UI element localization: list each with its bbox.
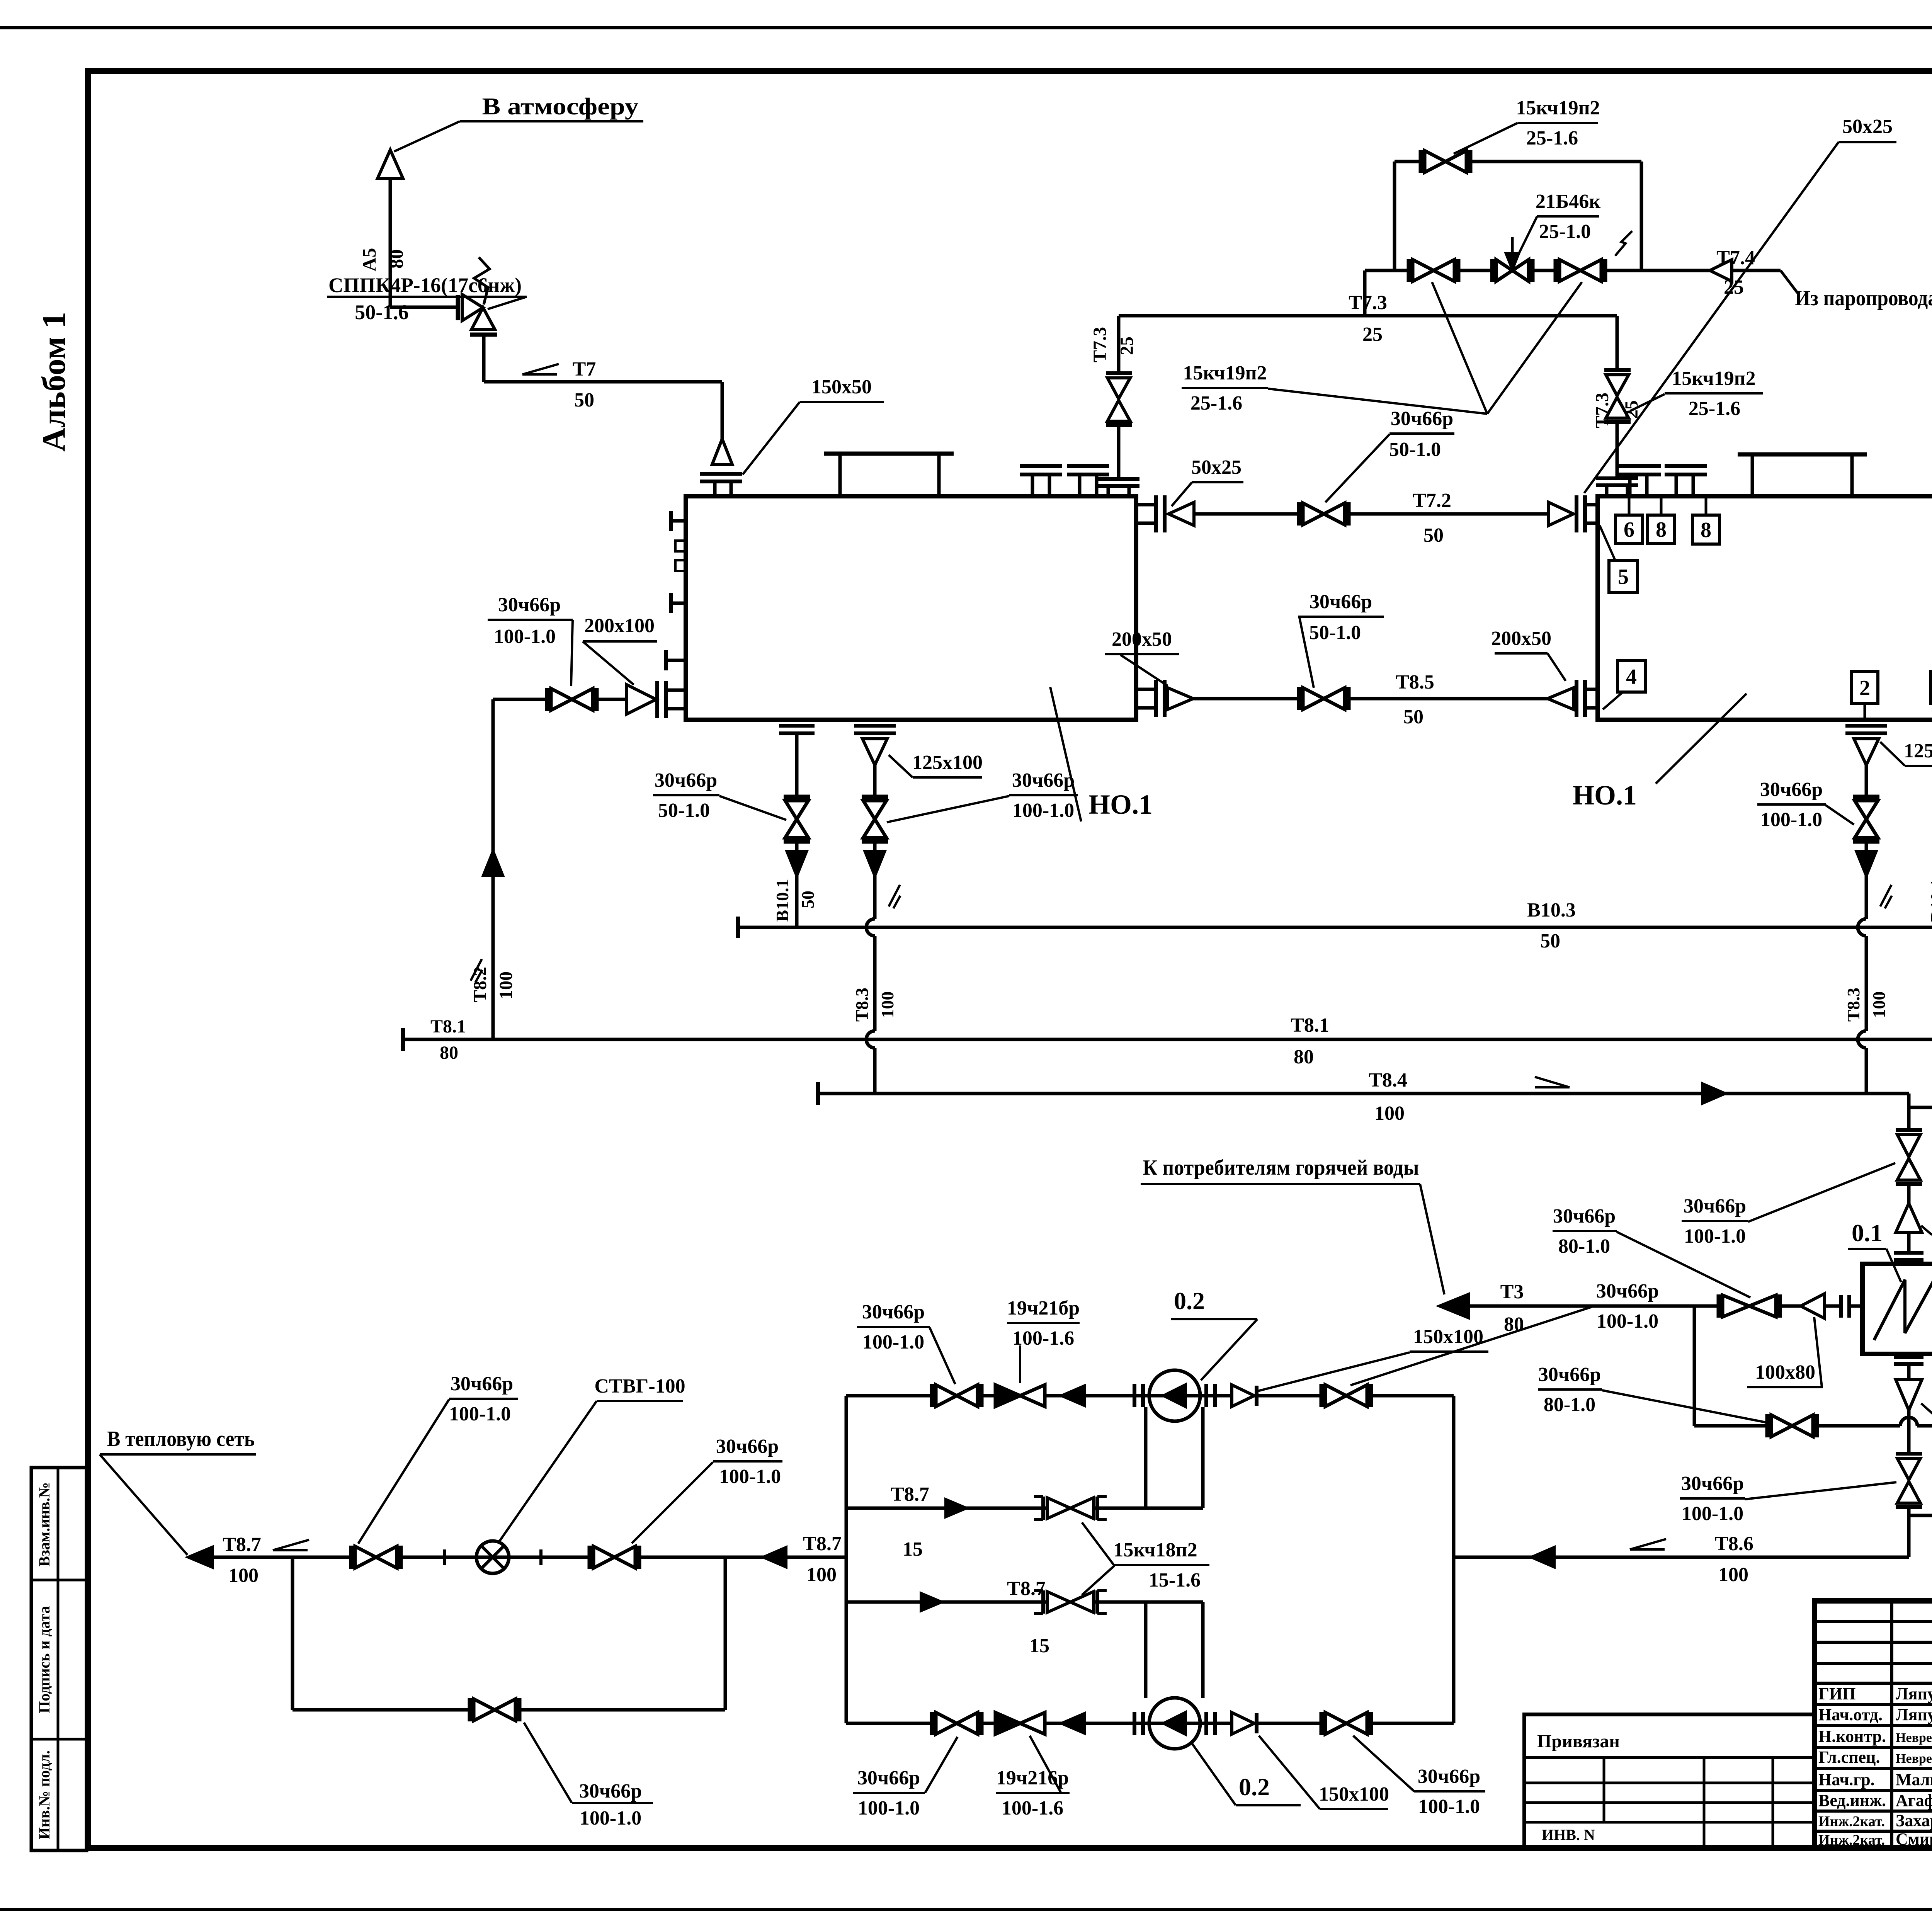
svg-text:Т7: Т7 (573, 358, 596, 380)
svg-text:19ч21бр: 19ч21бр (1007, 1297, 1080, 1319)
svg-text:50-1.0: 50-1.0 (658, 799, 710, 821)
pipe down to tank 1 (721, 382, 724, 439)
node box 2 (1852, 672, 1878, 703)
pipe В10.1 to В10.3 (795, 876, 799, 927)
flow arrow (921, 1594, 941, 1611)
pipe bypass В1.1 (1694, 1424, 1900, 1428)
svg-text:Инж.2кат.: Инж.2кат. (1818, 1813, 1885, 1830)
leader to left vent (394, 121, 460, 151)
svg-text:Н.контр.: Н.контр. (1818, 1727, 1886, 1746)
svg-text:СППК4Р-16(17с6нж): СППК4Р-16(17с6нж) (328, 274, 522, 297)
svg-text:30ч66р: 30ч66р (1596, 1280, 1659, 1302)
pump unit left rail (845, 1396, 848, 1723)
valve 15кч19п2 (right riser) (1606, 375, 1629, 396)
svg-text:100-1.0: 100-1.0 (1684, 1225, 1746, 1247)
pipe Т7.2 right part (1349, 512, 1549, 516)
flow arrow Т8.6 (1532, 1548, 1554, 1567)
pipe (597, 698, 627, 701)
svg-text:Взам.инв.№: Взам.инв.№ (36, 1482, 53, 1566)
tank2 Т7.2 nozzle (1575, 495, 1578, 532)
valve 30ч66р 50-1.0 (Т8.5) (1297, 687, 1301, 710)
svg-text:5: 5 (1618, 565, 1629, 589)
tank2 top nozzle pair 2 (1665, 464, 1707, 468)
svg-text:50: 50 (1423, 524, 1444, 546)
flange (1106, 371, 1132, 375)
tank2 drain Т8.3 flange pair (1845, 724, 1887, 728)
tank1 inlet nozzle (666, 689, 686, 692)
vent outlet arrow A5 (left) (378, 150, 403, 179)
flow arrow on Т8.4 (1702, 1084, 1725, 1103)
flow arrow down (865, 852, 884, 876)
svg-text:100-1.6: 100-1.6 (1012, 1327, 1074, 1349)
svg-text:В тепловую сеть: В тепловую сеть (107, 1427, 255, 1451)
valve 30ч66р 100-1.0 (HX drain) (1897, 1458, 1920, 1480)
paper bottom edge (0, 1908, 1932, 1911)
svg-text:Подпись и дата: Подпись и дата (36, 1606, 53, 1713)
svg-text:Т7.4: Т7.4 (1716, 247, 1755, 269)
valve 15кч19п2 (row left) (1407, 259, 1411, 282)
control valve 21Б46к (1490, 259, 1495, 282)
tank НО.1 left (686, 496, 1136, 720)
valve 15кч19п2 (row right) (1554, 259, 1558, 282)
svg-text:ИНВ. N: ИНВ. N (1542, 1826, 1595, 1844)
svg-text:30ч66р: 30ч66р (1684, 1195, 1746, 1217)
svg-text:2: 2 (1859, 676, 1870, 700)
tank1 Т8.5 nozzle (1136, 688, 1156, 691)
nozzle legs (1107, 486, 1110, 496)
svg-text:25-1.6: 25-1.6 (1190, 392, 1242, 414)
svg-text:Т8.4: Т8.4 (1369, 1069, 1407, 1091)
pipe A5 vertical (left) (389, 179, 392, 307)
svg-text:В10.3: В10.3 (1527, 899, 1576, 921)
svg-text:30ч66р: 30ч66р (862, 1301, 925, 1323)
reducer 50x25 (left) (1168, 502, 1194, 526)
svg-text:80: 80 (440, 1043, 458, 1063)
svg-text:Нач.гр.: Нач.гр. (1818, 1770, 1875, 1789)
nozzle legs (1605, 485, 1609, 496)
tank НО.1 right (1598, 496, 1932, 720)
pipe Т8.4 (816, 1082, 820, 1105)
svg-text:Т3: Т3 (1500, 1281, 1524, 1303)
reducer 125x100 (862, 739, 887, 765)
tank2 top nozzle pair 1 (1618, 464, 1661, 468)
svg-text:100-1.0: 100-1.0 (580, 1807, 641, 1829)
valve 15кч19п2 (left riser) (1107, 378, 1130, 399)
pump 0.2 (bottom) (1149, 1698, 1200, 1749)
svg-text:0.2: 0.2 (1174, 1287, 1205, 1315)
svg-text:НО.1: НО.1 (1088, 789, 1153, 820)
svg-text:Т8.3: Т8.3 (1844, 988, 1863, 1022)
svg-text:0.1: 0.1 (1852, 1219, 1883, 1247)
flow arrow (946, 1500, 966, 1517)
svg-text:15-1.6: 15-1.6 (1149, 1569, 1201, 1591)
flange (1896, 1452, 1922, 1456)
reducer 200x50 (left) (1168, 688, 1193, 709)
tank1 drain Т8.3 flange pair (854, 724, 896, 728)
pipe Т8.7-15 line 1 (846, 1507, 1203, 1510)
pipe В10.3 (736, 917, 740, 938)
svg-text:Т7.3: Т7.3 (1592, 393, 1612, 428)
flow mark (1535, 1086, 1570, 1088)
flow mark (273, 1549, 308, 1551)
pipe to safety valve (left) (390, 306, 456, 309)
svg-text:0.2: 0.2 (1239, 1773, 1270, 1801)
valve 30ч66р 50-1.0 (drain) (784, 795, 810, 799)
pipe Т7 (left) (484, 380, 722, 384)
svg-text:Гл.спец.: Гл.спец. (1818, 1748, 1880, 1767)
svg-text:30ч66р: 30ч66р (451, 1373, 513, 1395)
flange pair (1894, 1251, 1923, 1255)
svg-text:100: 100 (1869, 992, 1889, 1018)
pump flanges (1133, 1384, 1136, 1407)
drain pipe (795, 733, 799, 797)
svg-text:100-1.0: 100-1.0 (494, 626, 556, 648)
svg-text:Агафонова: Агафонова (1896, 1791, 1932, 1810)
svg-text:Смирнова: Смирнова (1896, 1830, 1932, 1849)
svg-text:100-1.0: 100-1.0 (1012, 799, 1074, 821)
pipe (1907, 1184, 1911, 1203)
node box 8b (1692, 515, 1719, 544)
valve 30ч66р 100-1.0 (heat net 2) (588, 1546, 592, 1569)
pipe (1865, 765, 1868, 797)
svg-text:25: 25 (1724, 276, 1744, 298)
valve 30ч66р 100-1.0 (HX top) (1897, 1134, 1920, 1157)
reducer 200x50 (right) (1548, 688, 1573, 709)
svg-text:150x50: 150x50 (811, 376, 872, 398)
svg-text:25-1.6: 25-1.6 (1526, 127, 1578, 149)
svg-text:В атмосферу: В атмосферу (482, 94, 639, 120)
pipe (1117, 425, 1121, 479)
svg-text:15кч18п2: 15кч18п2 (1113, 1539, 1197, 1561)
pipe bypass below (291, 1557, 294, 1710)
svg-text:100: 100 (1718, 1564, 1748, 1586)
svg-text:100: 100 (1374, 1102, 1405, 1124)
svg-text:80-1.0: 80-1.0 (1544, 1394, 1595, 1416)
svg-text:30ч66р: 30ч66р (498, 594, 561, 616)
tank1 top nozzle pair 1 (1020, 464, 1062, 468)
valve 30ч66р 100-1.0 (bottom left) (930, 1712, 934, 1735)
svg-text:125x100: 125x100 (1904, 740, 1932, 762)
svg-text:К потребителям горячей воды: К потребителям горячей воды (1143, 1156, 1419, 1180)
pipe Т3 (1440, 1304, 1719, 1308)
pipe (873, 765, 877, 797)
pipe Т8.3 left vertical (873, 876, 877, 919)
svg-text:НО.1: НО.1 (1573, 780, 1637, 811)
svg-text:Инв.№ подл.: Инв.№ подл. (36, 1750, 53, 1840)
check valve (top) (1232, 1385, 1254, 1406)
svg-text:100: 100 (496, 971, 516, 999)
tank1 left wall stub 3 (666, 659, 686, 662)
valve 30ч66р 80-1.0 (bypass) (1765, 1414, 1770, 1437)
svg-text:200x50: 200x50 (1491, 628, 1551, 650)
svg-text:25-1.6: 25-1.6 (1689, 398, 1740, 420)
tank1 left wall stub 2 (671, 602, 686, 605)
svg-text:Т8.1: Т8.1 (430, 1016, 466, 1037)
valve 15кч18п2 (1) (1041, 1497, 1045, 1520)
flow mark (522, 373, 557, 376)
svg-text:Малыгина: Малыгина (1896, 1770, 1932, 1789)
svg-text:8: 8 (1701, 518, 1711, 542)
svg-text:Ляпусов: Ляпусов (1896, 1684, 1932, 1703)
slope mark (889, 885, 900, 906)
pipe (1907, 1364, 1911, 1378)
svg-text:Т7.2: Т7.2 (1413, 490, 1451, 512)
node box 8a (1648, 515, 1675, 543)
svg-text:30ч66р: 30ч66р (1391, 408, 1453, 430)
flange (1896, 1505, 1922, 1509)
reducer 150x50 (712, 439, 732, 464)
pipe (1907, 1107, 1911, 1130)
pipe to Т8.6 (1907, 1507, 1911, 1557)
flange pair (700, 472, 742, 476)
flow arrow Т3 (1440, 1294, 1468, 1318)
svg-text:30ч66р: 30ч66р (1553, 1205, 1616, 1227)
meter СТВГ-100 (476, 1541, 509, 1573)
pump1 suction stubs (1144, 1407, 1148, 1508)
flange (1896, 1128, 1922, 1132)
svg-text:В10.1: В10.1 (1927, 879, 1932, 922)
flow arrow (1062, 1714, 1084, 1733)
svg-text:100x80: 100x80 (1755, 1361, 1815, 1383)
reducer 50x25 (right) (1549, 502, 1573, 526)
pipe (795, 842, 799, 852)
svg-text:50-1.0: 50-1.0 (1309, 622, 1361, 644)
svg-text:Т8.3: Т8.3 (852, 988, 872, 1022)
svg-text:Невретдинова: Невретдинова (1896, 1752, 1932, 1766)
lightning mark (1615, 231, 1632, 256)
tank1 Т7.2 nozzle (1136, 503, 1156, 507)
valve 30ч66р 100-1.0 (bottom right) (1320, 1712, 1324, 1735)
svg-text:15: 15 (1029, 1635, 1049, 1657)
valve 30ч66р 100-1.0 (drain) (862, 795, 888, 799)
svg-text:30ч66р: 30ч66р (1538, 1364, 1601, 1386)
svg-text:100-1.0: 100-1.0 (1597, 1310, 1658, 1332)
pipe pump bottom row (846, 1722, 1454, 1725)
pipe Т7.3 horizontal (1119, 314, 1617, 318)
pipe to Т8.2 riser (493, 698, 547, 701)
valve 30ч66р 100-1.0 (tank1 inlet) (545, 688, 549, 711)
title block (1815, 1601, 1932, 1848)
svg-text:Т8.7: Т8.7 (223, 1534, 261, 1556)
svg-text:25-1.0: 25-1.0 (1539, 221, 1591, 243)
svg-text:30ч66р: 30ч66р (579, 1780, 642, 1802)
svg-text:15кч19п2: 15кч19п2 (1516, 97, 1600, 119)
svg-text:30ч66р: 30ч66р (1681, 1473, 1744, 1495)
pipe (1616, 422, 1619, 478)
valve 15кч18п2 (2) (1041, 1590, 1045, 1614)
svg-text:30ч66р: 30ч66р (1418, 1765, 1480, 1787)
svg-text:Из паропровода: Из паропровода (1795, 286, 1932, 310)
svg-text:Вед.инж.: Вед.инж. (1818, 1791, 1886, 1810)
svg-text:50-1.0: 50-1.0 (1389, 439, 1441, 461)
pipe (1780, 1304, 1801, 1308)
reducer 125x100 (right) (1854, 739, 1879, 765)
bypass top pipe (1395, 160, 1641, 163)
svg-text:А5: А5 (358, 248, 380, 271)
pipe Т8.6 (1454, 1556, 1909, 1559)
valve 30ч66р 100-1.0 (lower bypass) (468, 1698, 472, 1721)
bypass left vertical (1393, 162, 1396, 270)
svg-text:30ч66р: 30ч66р (1310, 591, 1372, 613)
svg-text:100-1.0: 100-1.0 (1418, 1796, 1480, 1818)
valve 30ч66р 100-1.0 (top left) (930, 1384, 934, 1407)
svg-text:25: 25 (1117, 337, 1137, 355)
reducer 125x100 (HX top) (1896, 1203, 1922, 1233)
pipe riser to valve row (1363, 270, 1367, 316)
svg-text:30ч66р: 30ч66р (857, 1767, 920, 1789)
flange (1106, 423, 1132, 427)
flange under valve (470, 333, 497, 337)
leaders V (1268, 389, 1487, 414)
tank1 left wall square stubs (675, 541, 686, 551)
tank1 manhole (838, 455, 842, 496)
svg-text:Захарова: Захарова (1896, 1811, 1932, 1830)
svg-text:80: 80 (385, 249, 407, 269)
pipe (1907, 1233, 1911, 1252)
flange (1896, 1182, 1922, 1186)
svg-text:Т8.7: Т8.7 (891, 1483, 929, 1505)
svg-text:21Б46к: 21Б46к (1536, 190, 1600, 213)
pipe Т8.3 right vertical (1865, 876, 1868, 919)
nozzle legs (713, 481, 717, 496)
svg-text:Нач.отд.: Нач.отд. (1818, 1705, 1883, 1724)
slope mark (471, 959, 482, 981)
valve 15кч19п2 (bypass) (1419, 150, 1423, 173)
flow arrow (764, 1548, 786, 1567)
svg-text:100-1.0: 100-1.0 (858, 1797, 920, 1819)
svg-text:15кч19п2: 15кч19п2 (1183, 362, 1267, 384)
svg-text:Привязан: Привязан (1537, 1731, 1620, 1752)
tank1 left wall stub 1 (671, 519, 686, 523)
heat exchanger 0.1 (1862, 1264, 1932, 1354)
pump flanges (1204, 1384, 1208, 1407)
small table Привязан (1524, 1714, 1815, 1848)
valve 19ч21бр (bottom) (995, 1713, 1020, 1734)
svg-text:Т8.6: Т8.6 (1715, 1533, 1753, 1555)
valve 30ч66р 100-1.0 (top right) (1320, 1384, 1324, 1407)
flow arrow to heat network (189, 1547, 213, 1567)
flange pair HX bottom (1894, 1355, 1923, 1359)
pipe (1865, 842, 1868, 852)
svg-text:Т8.7: Т8.7 (803, 1533, 842, 1555)
flange pair (1596, 476, 1638, 480)
svg-text:Т8.7: Т8.7 (1007, 1578, 1046, 1600)
title block rows left (1815, 1620, 1932, 1623)
title block columns (1890, 1601, 1893, 1848)
svg-text:Альбом 1: Альбом 1 (35, 312, 72, 452)
pipe Т8.1 (401, 1028, 405, 1051)
flange pair (1098, 477, 1139, 481)
flow arrow down (1857, 852, 1876, 876)
svg-text:ГИП: ГИП (1818, 1684, 1855, 1703)
svg-text:50: 50 (1540, 930, 1560, 952)
svg-text:100-1.6: 100-1.6 (1002, 1797, 1063, 1819)
pipe Т8.7 100 (189, 1556, 846, 1559)
svg-text:100-1.0: 100-1.0 (1760, 809, 1822, 831)
svg-text:80: 80 (1294, 1046, 1314, 1068)
reducer 125x100 (HX bottom) (1896, 1379, 1922, 1410)
svg-text:50x25: 50x25 (1842, 116, 1893, 138)
svg-text:50: 50 (574, 389, 594, 411)
pipe down (1907, 1410, 1911, 1453)
svg-text:100: 100 (878, 992, 897, 1018)
svg-text:100-1.0: 100-1.0 (449, 1403, 511, 1425)
flange pair HX left (1839, 1295, 1843, 1318)
flow arrow up (483, 852, 503, 876)
pipe Т8.4 corner down (1907, 1094, 1911, 1107)
svg-text:Невретдинова: Невретдинова (1896, 1731, 1932, 1745)
flange (1604, 420, 1631, 424)
slope mark (1880, 885, 1891, 906)
svg-text:30ч66р: 30ч66р (1760, 779, 1823, 801)
valve outlet pipe (482, 335, 486, 382)
svg-text:100: 100 (806, 1564, 837, 1586)
leader Из паропровода (1781, 270, 1798, 293)
valve 30ч66р 100-1.0 (right drain) (1853, 795, 1879, 799)
reducer 100x80 (HX left) (1801, 1294, 1825, 1318)
pipe Т7.2 (1194, 512, 1310, 516)
svg-text:100-1.0: 100-1.0 (1682, 1503, 1743, 1525)
svg-text:Т8.1: Т8.1 (1291, 1014, 1329, 1036)
tank1 drain В10.1 flange pair (779, 724, 815, 728)
svg-text:100: 100 (228, 1565, 259, 1587)
flow arrow (1062, 1386, 1084, 1405)
tank2 Т8.5 nozzle (1575, 680, 1578, 717)
flange (1604, 368, 1631, 372)
pipe link to HX drain (1909, 1514, 1932, 1517)
svg-text:100-1.0: 100-1.0 (719, 1466, 781, 1488)
flange (456, 295, 460, 320)
pump flanges (1133, 1712, 1136, 1735)
node box 6 (1616, 515, 1643, 543)
svg-text:50: 50 (1403, 706, 1423, 728)
pipe (873, 842, 877, 852)
svg-text:150x100: 150x100 (1319, 1783, 1389, 1805)
svg-text:Т7.3: Т7.3 (1090, 327, 1110, 362)
flow arrow down (787, 852, 806, 876)
svg-text:Т8.5: Т8.5 (1396, 671, 1434, 693)
tank2 manhole (1751, 456, 1754, 496)
pump 0.2 (top) (1149, 1370, 1200, 1421)
pump flanges (1204, 1712, 1208, 1735)
pipe Т7.3 left riser (1117, 316, 1121, 373)
flow mark (1630, 1548, 1665, 1551)
svg-text:50: 50 (798, 891, 818, 908)
pipe Т8.2 riser (left) (492, 699, 495, 1039)
svg-text:30ч66р: 30ч66р (1012, 769, 1075, 791)
flow arrow Т7.4 (1710, 260, 1732, 281)
pipe valve row Т7.4 (1365, 269, 1781, 272)
reducer 200x100 (left) (627, 685, 656, 714)
valve 30ч66р 80-1.0 (HX left) (1717, 1294, 1721, 1318)
svg-text:200x100: 200x100 (584, 615, 655, 637)
svg-text:30ч66р: 30ч66р (655, 769, 717, 791)
pipe Т8.5 right part (1349, 697, 1548, 701)
pipe bypass left leg (1693, 1306, 1696, 1426)
valve 30ч66р 100-1.0 (heat net 1) (349, 1546, 354, 1569)
valve 19ч21бр (top) (995, 1385, 1020, 1406)
svg-text:100-1.0: 100-1.0 (862, 1331, 924, 1353)
svg-text:Ляпусов: Ляпусов (1896, 1705, 1932, 1724)
node box 5 (1609, 560, 1638, 592)
svg-text:4: 4 (1626, 665, 1637, 689)
pipe Т8.7-15 line 2 (846, 1600, 1203, 1604)
node box 4 (1617, 660, 1646, 692)
svg-text:8: 8 (1656, 518, 1667, 542)
svg-text:25: 25 (1362, 323, 1383, 345)
tank1 top nozzle pair 2 (1067, 464, 1109, 468)
svg-text:50-1.6: 50-1.6 (355, 301, 408, 324)
